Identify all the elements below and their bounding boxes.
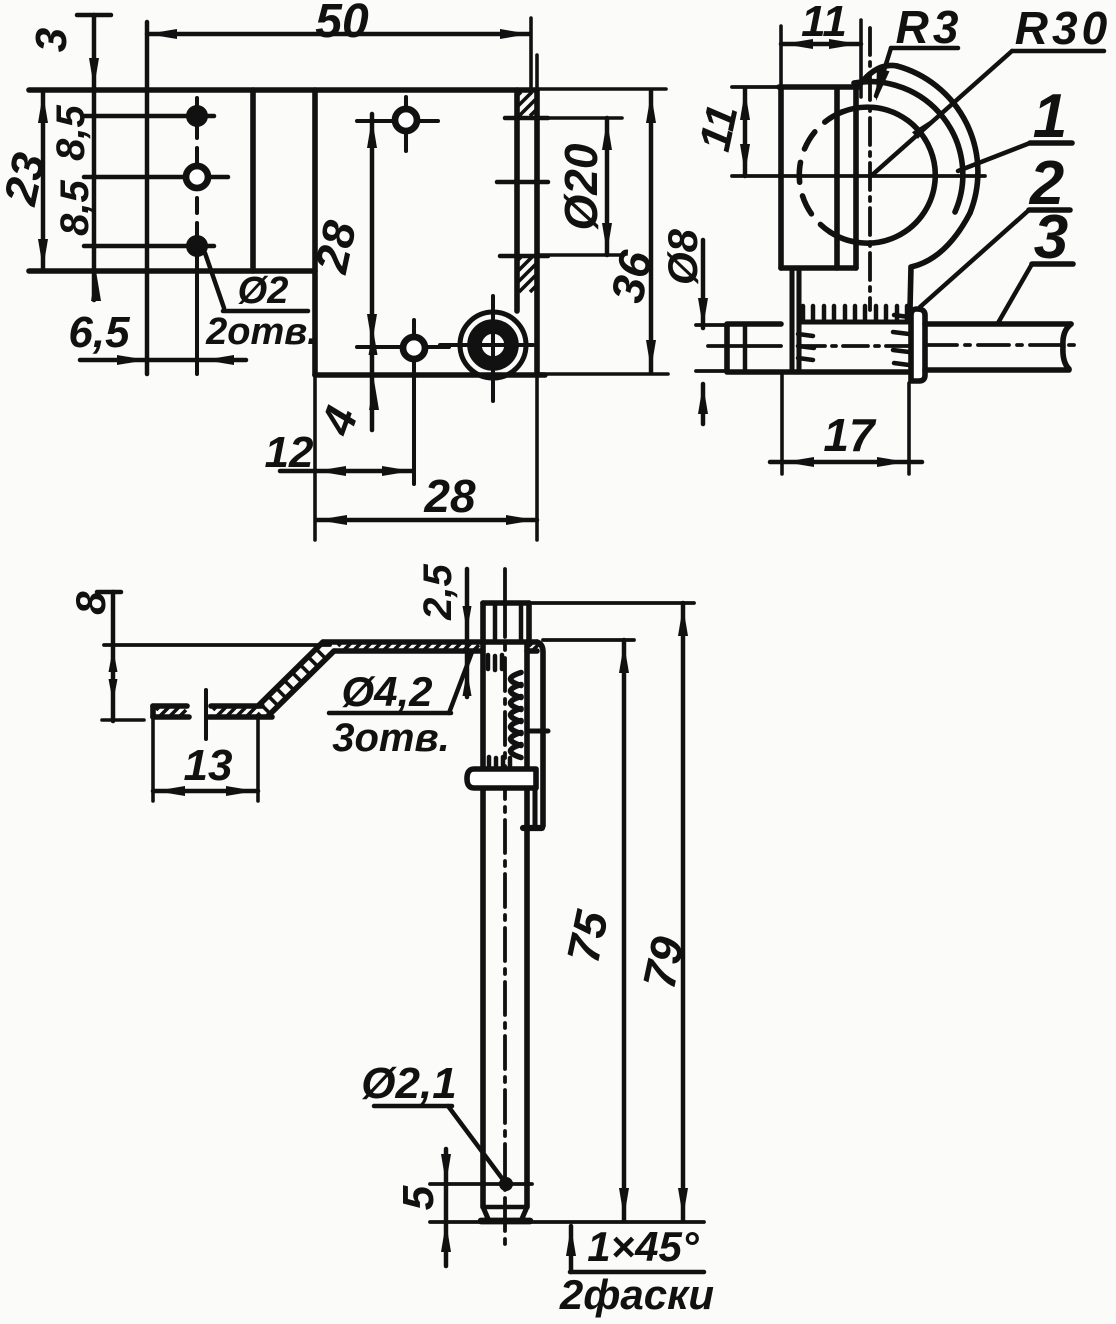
- view B: shaft centerline left: [708, 344, 781, 348]
- svg-text:8,5: 8,5: [49, 104, 93, 160]
- view A: plate top edge: [29, 87, 537, 93]
- hole centerline (dashed) x=197: [195, 98, 199, 374]
- view C: foot hole centerline: [204, 690, 208, 739]
- view B: fillet R3 curve: [858, 65, 897, 87]
- hole row line y=246: [84, 244, 214, 248]
- svg-text:Ø8: Ø8: [659, 228, 706, 285]
- dimension O8 text: [659, 228, 706, 285]
- dimension 13 text: [184, 741, 233, 790]
- hole O2,1 extension line: [430, 1182, 532, 1186]
- label O2 leader: [205, 253, 224, 308]
- boss outer circle: [460, 312, 526, 378]
- label O4,2 text: [341, 668, 432, 715]
- dimension 17 extensions: [782, 375, 909, 474]
- dimension 13 line: [153, 786, 258, 796]
- hole O2 middle (open): [186, 166, 208, 188]
- dimension 11 top extension right: [859, 20, 863, 97]
- view C: lip tick: [528, 728, 548, 733]
- view A: left plate bottom edge: [29, 268, 315, 274]
- dimension 50 right extension: [529, 18, 533, 90]
- dimension 5 text: [394, 1185, 443, 1210]
- dimension 28v text: [304, 216, 366, 278]
- dimension 6,5 line: [80, 355, 246, 365]
- view A: hatch band lower on strip: [500, 256, 548, 292]
- label O2,1 leader: [448, 1106, 504, 1181]
- view B: shaft top edge middle: [799, 319, 911, 324]
- dimension 11 left text: [690, 101, 747, 156]
- svg-text:11: 11: [801, 0, 847, 46]
- label 1x45 text: [587, 1223, 700, 1270]
- dimension 11 top text: [801, 0, 847, 46]
- svg-text:13: 13: [184, 741, 233, 790]
- view B: bore circle dashed part: [799, 112, 842, 232]
- view B: ring vertical centerline: [868, 28, 872, 310]
- callout 1 underline: [1030, 140, 1072, 146]
- callout 2 underline: [1029, 207, 1070, 213]
- hole O2 lower (filled): [186, 235, 208, 257]
- svg-text:Ø4,2: Ø4,2: [341, 668, 432, 715]
- svg-text:Ø2: Ø2: [238, 270, 289, 312]
- dimension 17 line: [770, 457, 922, 467]
- dimension O20 extensions: [536, 118, 622, 255]
- view C: lip outer line: [537, 642, 543, 826]
- view B: clamp slot lines: [837, 88, 856, 268]
- svg-text:1×45°: 1×45°: [587, 1223, 700, 1270]
- dimension 4 arrows: [369, 329, 380, 410]
- bottom extension line: [430, 1220, 704, 1224]
- dimension 11 left line: [740, 88, 750, 176]
- dimension 23 line: [38, 91, 48, 271]
- spring bottom ticks: [489, 757, 510, 771]
- spring top ticks: [488, 655, 502, 670]
- dimension 4 text: [310, 400, 368, 443]
- view C: foot hatch: [156, 707, 260, 716]
- view A: right edge x=537 with extensions: [535, 55, 539, 540]
- view C: bend hatch: [260, 649, 325, 712]
- label O2 underline: [223, 309, 308, 313]
- svg-text:2,5: 2,5: [416, 563, 460, 620]
- view C: flange bottom edge: [334, 648, 537, 654]
- boss bore ring (thick): [475, 327, 512, 364]
- view A: main plate bottom edge: [315, 374, 668, 375]
- dimension 12 line: [280, 466, 413, 476]
- rod right edge: [524, 643, 530, 1207]
- view B: ring horizontal centerline: [732, 174, 985, 178]
- label R3 text: [896, 1, 963, 53]
- hole row line y=116: [84, 114, 214, 118]
- dimension 75 text: [557, 905, 619, 967]
- label O2,1 text: [361, 1059, 456, 1108]
- dimension 3 text: [27, 28, 76, 52]
- view B: block bottom ledge: [781, 265, 856, 271]
- dimension O20 text: [555, 143, 607, 230]
- view C: foot left cap: [150, 706, 156, 717]
- view C: flange top edge: [323, 639, 537, 645]
- view B: shaft bottom edge left+boss: [696, 371, 909, 372]
- view C: bend lower diagonal: [268, 651, 334, 716]
- label O2,1 underline: [374, 1104, 452, 1108]
- svg-text:2отв.: 2отв.: [205, 311, 318, 353]
- dimension O8 line upper: [698, 240, 708, 328]
- svg-text:6,5: 6,5: [68, 308, 130, 357]
- rod bottom chamfer diagonals: [483, 1207, 527, 1221]
- label R30 text: [1015, 2, 1111, 54]
- dimension 28h line: [316, 515, 537, 525]
- svg-text:Ø2,1: Ø2,1: [361, 1059, 456, 1108]
- dimension 79 line: [678, 603, 688, 1221]
- svg-text:R3: R3: [896, 1, 963, 53]
- view B: ring outer arc R110: [897, 66, 978, 213]
- view B: neck curve to hub: [910, 213, 970, 309]
- view C: lip foot: [523, 825, 542, 831]
- dimension 79 extension: [532, 601, 694, 605]
- view C: foot bottom edge: [153, 714, 272, 720]
- rod bottom chamfer ring: [483, 1205, 527, 1209]
- view B: ring inner arc R93: [854, 82, 963, 212]
- rod left edge: [480, 643, 486, 1207]
- dimension 8 text: [67, 591, 114, 615]
- view A: step edge x=315 with extension: [312, 90, 318, 540]
- svg-text:3: 3: [27, 28, 76, 52]
- svg-text:R30: R30: [1015, 2, 1111, 54]
- view C: flange top extension left: [104, 643, 330, 647]
- label O2 text: [238, 270, 289, 312]
- view B: block left edge: [779, 26, 783, 268]
- view B: shaft left chamfer line: [743, 326, 747, 370]
- svg-text:5: 5: [394, 1185, 443, 1210]
- view B: shaft centerline middle: [800, 344, 910, 348]
- dimension 3 line with arrows: [89, 15, 101, 301]
- view C: flange hatch: [338, 643, 540, 650]
- dimension 36 text: [601, 246, 663, 307]
- dimension 75 extension: [543, 638, 634, 642]
- dimension 36 line: [646, 90, 656, 373]
- rod nut top cap: [483, 600, 529, 606]
- view C: bend upper diagonal: [258, 642, 323, 706]
- view B: shaft centerline right: [926, 343, 1082, 347]
- view C: lip inner line: [532, 786, 537, 826]
- dimension 8 top bar: [97, 590, 121, 594]
- callout 1 leader: [958, 143, 1030, 171]
- callout 3 text: [1034, 203, 1068, 272]
- rod nut sides: [483, 603, 529, 643]
- view B: spring ticks right: [893, 315, 909, 365]
- hole A circle: [395, 109, 417, 131]
- view A: hatch band upper on strip: [505, 92, 548, 118]
- label 2 faski text: [559, 1271, 714, 1318]
- dimension 8 bottom extension: [102, 718, 144, 722]
- label O4,2 leader: [449, 652, 472, 713]
- dimension 12 text: [265, 428, 314, 477]
- svg-text:12: 12: [265, 428, 314, 477]
- dimension 28h text: [423, 470, 476, 522]
- dimension 8,5 lower text: [53, 179, 97, 235]
- callout 1 text: [1033, 82, 1067, 151]
- dimension 79 text: [633, 932, 695, 993]
- view B: collar (item 2): [911, 309, 925, 381]
- callout 3 leader: [998, 264, 1032, 323]
- view B: shaft left end cap: [724, 326, 730, 370]
- callout 2 text: [1029, 149, 1064, 218]
- dimension 28v line: [367, 114, 377, 430]
- dimension 75 line: [619, 640, 629, 1221]
- callout 2 leader: [920, 210, 1029, 307]
- svg-text:Ø20: Ø20: [555, 143, 607, 230]
- svg-text:8: 8: [67, 591, 114, 615]
- hole O2 upper (filled): [186, 105, 208, 127]
- hole B crosshair: [357, 320, 449, 484]
- dimension 2,5 text: [416, 563, 460, 620]
- rod bottom end cap: [481, 1218, 530, 1225]
- hole row line y=177: [84, 175, 228, 179]
- label R30 underline: [1012, 49, 1104, 53]
- view A: strip center tick (hole axis): [497, 180, 548, 184]
- label R3 underline: [891, 46, 958, 50]
- view B: shaft right top edge: [925, 321, 1071, 327]
- view A: inner edge x=253: [250, 90, 256, 271]
- svg-text:2фаски: 2фаски: [559, 1271, 714, 1318]
- label 1x45 arrow: [566, 1226, 576, 1272]
- hole B circle: [403, 337, 425, 359]
- view B: shaft right end cap: [1063, 324, 1071, 369]
- spring coil hooks: [511, 673, 522, 758]
- svg-text:17: 17: [823, 409, 877, 461]
- view A: flange strip inner line x=517: [514, 90, 520, 311]
- view B: shaft left top edge: [696, 324, 781, 325]
- hole A crosshair: [357, 97, 438, 151]
- svg-text:50: 50: [315, 0, 369, 48]
- view A: bend line x=147: [145, 22, 149, 374]
- boss crosshair: [440, 296, 533, 401]
- dimension 50 text: [315, 0, 369, 48]
- dimension 13 extensions: [153, 719, 258, 801]
- view B: bore circle solid part: [830, 107, 935, 243]
- svg-text:8,5: 8,5: [53, 179, 97, 235]
- view A: top edge extension for dim 36: [537, 87, 666, 91]
- dimension 5 line: [441, 1149, 451, 1266]
- dimension 3 top bar: [77, 13, 111, 17]
- spring washer: [467, 769, 536, 788]
- dimension 17 text: [823, 409, 877, 461]
- view C: foot top edge: [153, 703, 262, 709]
- view B: hub left edge lines: [792, 268, 799, 371]
- dimension 23 text: [0, 148, 55, 210]
- hole O2,1 dot: [499, 1177, 513, 1191]
- label 2otv text: [205, 311, 318, 353]
- dimension O8 line lower: [698, 384, 708, 424]
- dimension 11 top line: [781, 39, 861, 49]
- label R3 leader: [876, 48, 891, 101]
- label 1x45 underline: [570, 1270, 704, 1274]
- dimension 8 line: [109, 592, 118, 721]
- dimension 8,5 upper text: [49, 104, 93, 160]
- view B: shaft right bottom edge: [925, 367, 1069, 373]
- label R30 radius line: [871, 51, 1012, 176]
- rod nut facet lines: [495, 603, 521, 642]
- rod centerline: [503, 569, 507, 1250]
- view B: knurled teeth row: [803, 306, 907, 321]
- dimension 2,5 line: [463, 569, 472, 697]
- callout 3 underline: [1032, 261, 1073, 267]
- dimension 50 line: [147, 29, 530, 39]
- dimension 6,5 text: [68, 308, 130, 357]
- label 3otv text: [332, 716, 450, 760]
- svg-text:28: 28: [423, 470, 476, 522]
- svg-text:28: 28: [304, 216, 366, 278]
- view B: block top edge: [732, 85, 859, 89]
- dimension O20 line: [602, 118, 612, 255]
- label O4,2 underline: [329, 711, 451, 715]
- view B: hub spring ticks left: [798, 334, 814, 360]
- svg-text:3отв.: 3отв.: [332, 716, 450, 760]
